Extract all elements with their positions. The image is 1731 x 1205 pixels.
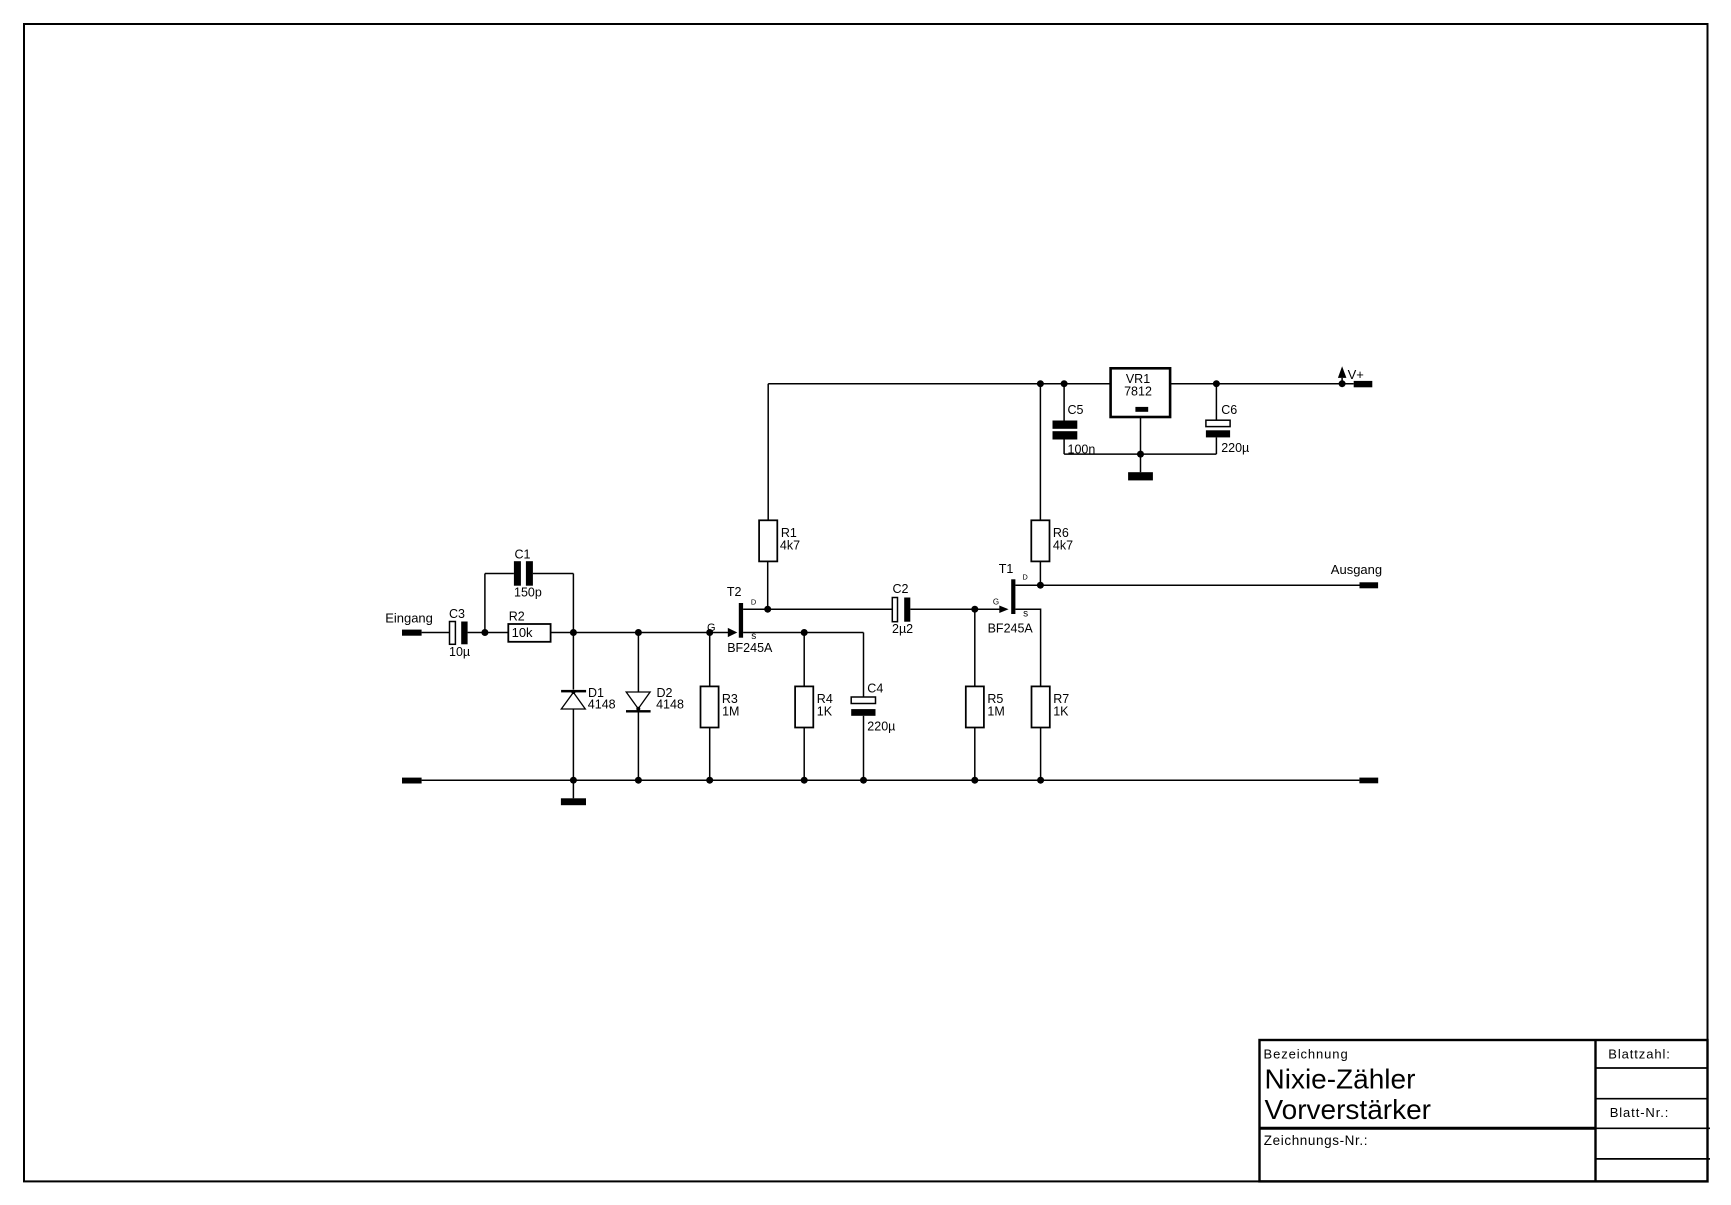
svg-text:1M: 1M — [987, 704, 1004, 718]
junction — [481, 629, 488, 636]
svg-text:C3: C3 — [449, 607, 465, 621]
junction — [860, 777, 867, 784]
wire — [910, 608, 999, 610]
capacitor C3 — [449, 607, 470, 659]
wire — [638, 632, 709, 634]
wire — [1040, 584, 1359, 586]
wire — [572, 633, 574, 690]
ground — [561, 798, 586, 805]
capacitor C5 — [1053, 403, 1096, 457]
svg-text:Zeichnungs-Nr.:: Zeichnungs-Nr.: — [1264, 1133, 1368, 1148]
wire — [1015, 584, 1040, 586]
wire — [863, 633, 865, 698]
wire — [804, 632, 863, 634]
capacitor C2 — [892, 582, 913, 636]
junction — [801, 629, 808, 636]
wire — [1140, 417, 1142, 472]
wire V+ rail — [1170, 383, 1354, 385]
resistor R3 — [701, 686, 740, 727]
junction — [570, 629, 577, 636]
svg-text:Vorverstärker: Vorverstärker — [1265, 1094, 1432, 1125]
resistor R1 — [759, 520, 800, 561]
junction — [1061, 380, 1068, 387]
wire — [863, 716, 865, 780]
svg-text:Blatt-Nr.:: Blatt-Nr.: — [1610, 1105, 1670, 1120]
diode D1 — [561, 686, 616, 712]
transistor T2 — [707, 585, 773, 655]
svg-text:Nixie-Zähler: Nixie-Zähler — [1265, 1063, 1416, 1094]
junction — [1137, 451, 1144, 458]
wire — [1040, 728, 1042, 781]
wire — [572, 709, 574, 780]
svg-text:s: s — [1023, 609, 1028, 620]
wire — [1039, 561, 1041, 585]
wire — [1063, 384, 1065, 421]
svg-text:T1: T1 — [999, 562, 1014, 576]
junction — [1037, 380, 1044, 387]
junction — [635, 777, 642, 784]
svg-text:D: D — [1022, 573, 1028, 582]
power V+ — [1338, 366, 1364, 387]
svg-text:2µ2: 2µ2 — [892, 622, 913, 636]
wire — [551, 632, 639, 634]
capacitor C1 — [514, 547, 542, 599]
junction — [635, 629, 642, 636]
wire — [422, 632, 450, 634]
svg-text:7812: 7812 — [1124, 384, 1152, 398]
wire ground rail — [422, 779, 1360, 781]
resistor R2 — [508, 609, 550, 642]
junction — [570, 777, 577, 784]
transistor T1 — [988, 562, 1034, 635]
svg-text:4k7: 4k7 — [1053, 538, 1073, 552]
svg-text:4k7: 4k7 — [780, 538, 800, 552]
wire — [572, 574, 574, 633]
wire — [468, 632, 509, 634]
wire — [803, 728, 805, 781]
ground — [1128, 472, 1153, 480]
wire — [767, 384, 769, 521]
svg-text:Bezeichnung: Bezeichnung — [1264, 1046, 1349, 1061]
wire — [709, 633, 711, 687]
junction — [971, 606, 978, 613]
wire — [743, 632, 804, 634]
svg-text:T2: T2 — [727, 585, 742, 599]
title block — [1260, 1040, 1711, 1181]
wire — [637, 713, 639, 781]
junction — [1213, 380, 1220, 387]
wire — [743, 608, 768, 610]
svg-text:V+: V+ — [1348, 367, 1364, 382]
svg-text:C5: C5 — [1068, 403, 1084, 417]
svg-text:150p: 150p — [514, 586, 542, 600]
svg-text:220µ: 220µ — [1221, 441, 1249, 455]
svg-text:220µ: 220µ — [867, 719, 895, 733]
junction — [1037, 777, 1044, 784]
voltage regulator VR1 — [1111, 368, 1171, 417]
svg-text:4148: 4148 — [588, 698, 616, 712]
wire — [637, 633, 639, 693]
wire — [533, 573, 574, 575]
wire — [1015, 609, 1040, 686]
wire V+ rail — [768, 383, 1110, 385]
svg-text:D: D — [751, 598, 757, 607]
svg-text:10µ: 10µ — [449, 645, 470, 659]
wire — [485, 573, 514, 575]
junction — [1037, 582, 1044, 589]
capacitor C4 — [851, 682, 895, 734]
wire — [1215, 384, 1217, 421]
wire — [1039, 384, 1041, 521]
svg-text:1K: 1K — [817, 704, 833, 718]
terminal ground left — [402, 778, 422, 784]
svg-text:BF245A: BF245A — [988, 621, 1034, 635]
wire — [484, 574, 486, 633]
wire — [1063, 440, 1065, 455]
wire — [767, 561, 769, 609]
resistor R4 — [795, 686, 833, 727]
junction — [706, 629, 713, 636]
junction — [801, 777, 808, 784]
svg-text:R2: R2 — [509, 609, 525, 623]
terminal V+ — [1354, 381, 1373, 387]
resistor R7 — [1032, 686, 1070, 727]
svg-text:10k: 10k — [512, 625, 533, 640]
diode D2 — [626, 686, 684, 713]
wire — [974, 609, 976, 686]
svg-text:1K: 1K — [1053, 704, 1069, 718]
svg-text:G: G — [993, 598, 999, 607]
svg-text:4148: 4148 — [656, 698, 684, 712]
capacitor C6 — [1206, 403, 1249, 455]
terminal ground right — [1359, 778, 1378, 784]
terminal Ausgang — [1360, 582, 1379, 588]
wire — [1215, 437, 1217, 454]
wire — [974, 728, 976, 781]
svg-text:Blattzahl:: Blattzahl: — [1608, 1047, 1670, 1062]
wire — [572, 780, 574, 798]
svg-text:C4: C4 — [867, 682, 883, 696]
wire — [768, 608, 892, 610]
junction — [971, 777, 978, 784]
resistor R5 — [966, 686, 1005, 727]
resistor R6 — [1031, 520, 1073, 561]
wire — [803, 633, 805, 687]
svg-text:C2: C2 — [893, 582, 909, 596]
svg-text:BF245A: BF245A — [727, 641, 773, 655]
svg-text:C1: C1 — [515, 547, 531, 561]
terminal Eingang — [402, 630, 422, 636]
wire — [1064, 453, 1216, 455]
wire — [709, 728, 711, 781]
junction — [764, 606, 771, 613]
junction — [706, 777, 713, 784]
svg-text:C6: C6 — [1221, 403, 1237, 417]
svg-text:1M: 1M — [722, 704, 739, 718]
svg-text:Eingang: Eingang — [385, 610, 433, 625]
svg-text:Ausgang: Ausgang — [1331, 562, 1382, 577]
